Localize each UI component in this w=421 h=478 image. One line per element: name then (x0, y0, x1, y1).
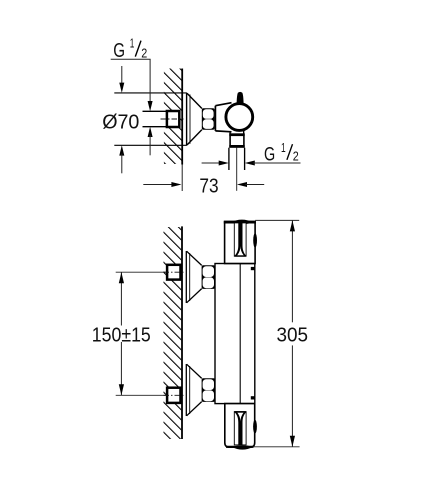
150 dim line upper segment (120, 272, 122, 325)
150 dim top arrow (119, 272, 124, 283)
305 bottom extension line (253, 446, 300, 448)
svg-text:1: 1 (130, 36, 135, 50)
outlet pipe right line (244, 148, 246, 170)
bottom knob grip lever (black bell, mirrored) (235, 411, 246, 445)
bottom knob thick bottom edge (226, 446, 254, 448)
top inlet in-wall nut (167, 265, 180, 280)
bottom union nut (front view) (202, 378, 215, 402)
body tick mark bottom (251, 396, 255, 399)
body inner vertical line (239, 264, 241, 404)
305 dim bottom arrow (290, 436, 295, 447)
svg-text:2: 2 (141, 45, 147, 60)
outlet pipe left line (228, 148, 230, 170)
bottom escutcheon cone lower edge (187, 402, 202, 416)
bottom escutcheon face line (185, 364, 187, 416)
G1/2 arrow up to pipe bottom (148, 127, 153, 137)
bottom escutcheon rim line (189, 366, 191, 414)
supply pipe bottom line (143, 126, 167, 128)
305 dim line lower segment (291, 345, 293, 446)
G1/2 leader underline (111, 58, 151, 60)
label G 1/2 (top left) (113, 36, 147, 62)
top knob grip lever (black bell) (235, 223, 246, 257)
top escutcheon rim line (189, 253, 191, 301)
escutcheon face line (186, 93, 188, 145)
outlet flange nut (230, 134, 244, 147)
knob stem on top of circle (237, 92, 244, 105)
top knob grip bottom band (235, 255, 246, 256)
bottom knob side button (253, 420, 257, 434)
wall hatching (top view) (164, 69, 182, 165)
escutcheon cone lower edge (187, 130, 202, 145)
wall line (bottom view) (181, 226, 183, 439)
top knob thick top edge (224, 221, 256, 223)
valve body (side view) (215, 103, 236, 132)
G1/2 leader vertical (149, 59, 151, 102)
wall line (top view) (181, 69, 183, 165)
305 top extension line (255, 219, 299, 221)
73 dim left shaft (143, 184, 174, 186)
bottom knob grip top band (235, 411, 246, 413)
bottom inlet in-wall nut (167, 388, 180, 403)
73 dim left arrow (points right at wall) (171, 182, 181, 187)
thermostat handle circle (side view) (226, 104, 253, 131)
top escutcheon face line (185, 251, 187, 303)
escutcheon bottom edge / Ø70 bottom extension line (114, 144, 187, 146)
73 dim right arrow (points left at centerline) (237, 182, 247, 187)
bottom knob grip recess (234, 412, 246, 445)
top union nut (front view) (202, 265, 215, 289)
top inlet centerline (extension for 150 dim) (116, 271, 167, 273)
Ø70 top arrow (119, 83, 124, 93)
body tick mark top (251, 267, 255, 270)
wall extension line down to 73 dim (181, 165, 183, 192)
top escutcheon cone lower edge (187, 289, 202, 303)
G1/2 right: right arrow (points left at pipe) (245, 161, 255, 166)
bottom inlet dash-dot centerline (164, 394, 184, 396)
73 dim right shaft (245, 184, 264, 186)
top knob grip white wedge (237, 246, 245, 256)
150 dim bottom arrow (119, 384, 124, 395)
outlet neck (229, 131, 231, 134)
escutcheon cone upper edge (187, 93, 202, 108)
bottom knob grip white wedge (237, 412, 245, 422)
svg-text:2: 2 (293, 149, 299, 164)
Ø70 bottom arrow shaft (121, 154, 123, 174)
svg-text:1: 1 (281, 140, 286, 155)
bottom escutcheon cone upper edge (187, 364, 202, 378)
G1/2 right: right shaft / label underline (253, 162, 301, 164)
top knob side button (253, 233, 257, 247)
svg-text:73: 73 (199, 175, 218, 197)
305 dim top arrow (290, 220, 295, 231)
150 dim line lower segment (120, 342, 122, 395)
bottom knob (volume handle) (225, 404, 255, 448)
svg-text:G: G (113, 39, 125, 62)
bottom inlet centerline (extension for 150 dim) (116, 394, 167, 396)
svg-text:305: 305 (277, 324, 309, 347)
pipe centerline dash-dot (top view) (161, 118, 184, 120)
top knob lens (230, 220, 253, 225)
in-wall connection nut (top view) (167, 111, 179, 127)
G1/2 right: left arrow shaft (202, 162, 220, 164)
top knob (temperature handle) (225, 221, 256, 263)
Ø70 top arrow shaft (121, 66, 123, 85)
escutcheon top edge / Ø70 top extension line (114, 92, 187, 94)
supply pipe in wall (white fill over hatch) (150, 111, 166, 126)
union nut (top view) (202, 108, 215, 129)
label G 1/2 (right) (264, 140, 299, 166)
outlet pipe centerline (236, 148, 238, 191)
svg-text:Ø70: Ø70 (102, 111, 139, 133)
G1/2 lower arrow shaft (149, 135, 151, 155)
top knob grip recess (234, 223, 246, 256)
305 dim line upper segment (291, 220, 293, 322)
G1/2 arrow down to pipe top (148, 101, 153, 111)
bottom knob lens (232, 445, 253, 449)
svg-text:150±15: 150±15 (92, 323, 151, 346)
svg-text:G: G (264, 145, 275, 166)
G1/2 right: left arrow (points right at pipe) (219, 161, 229, 166)
mixer body (front view) (215, 264, 255, 404)
Ø70 bottom arrow (119, 145, 124, 155)
top escutcheon cone upper edge (187, 251, 202, 265)
wall hatching (bottom view) (164, 227, 182, 439)
top inlet dash-dot centerline (164, 271, 184, 273)
escutcheon rim line (189, 95, 191, 144)
supply pipe top line (143, 110, 167, 112)
